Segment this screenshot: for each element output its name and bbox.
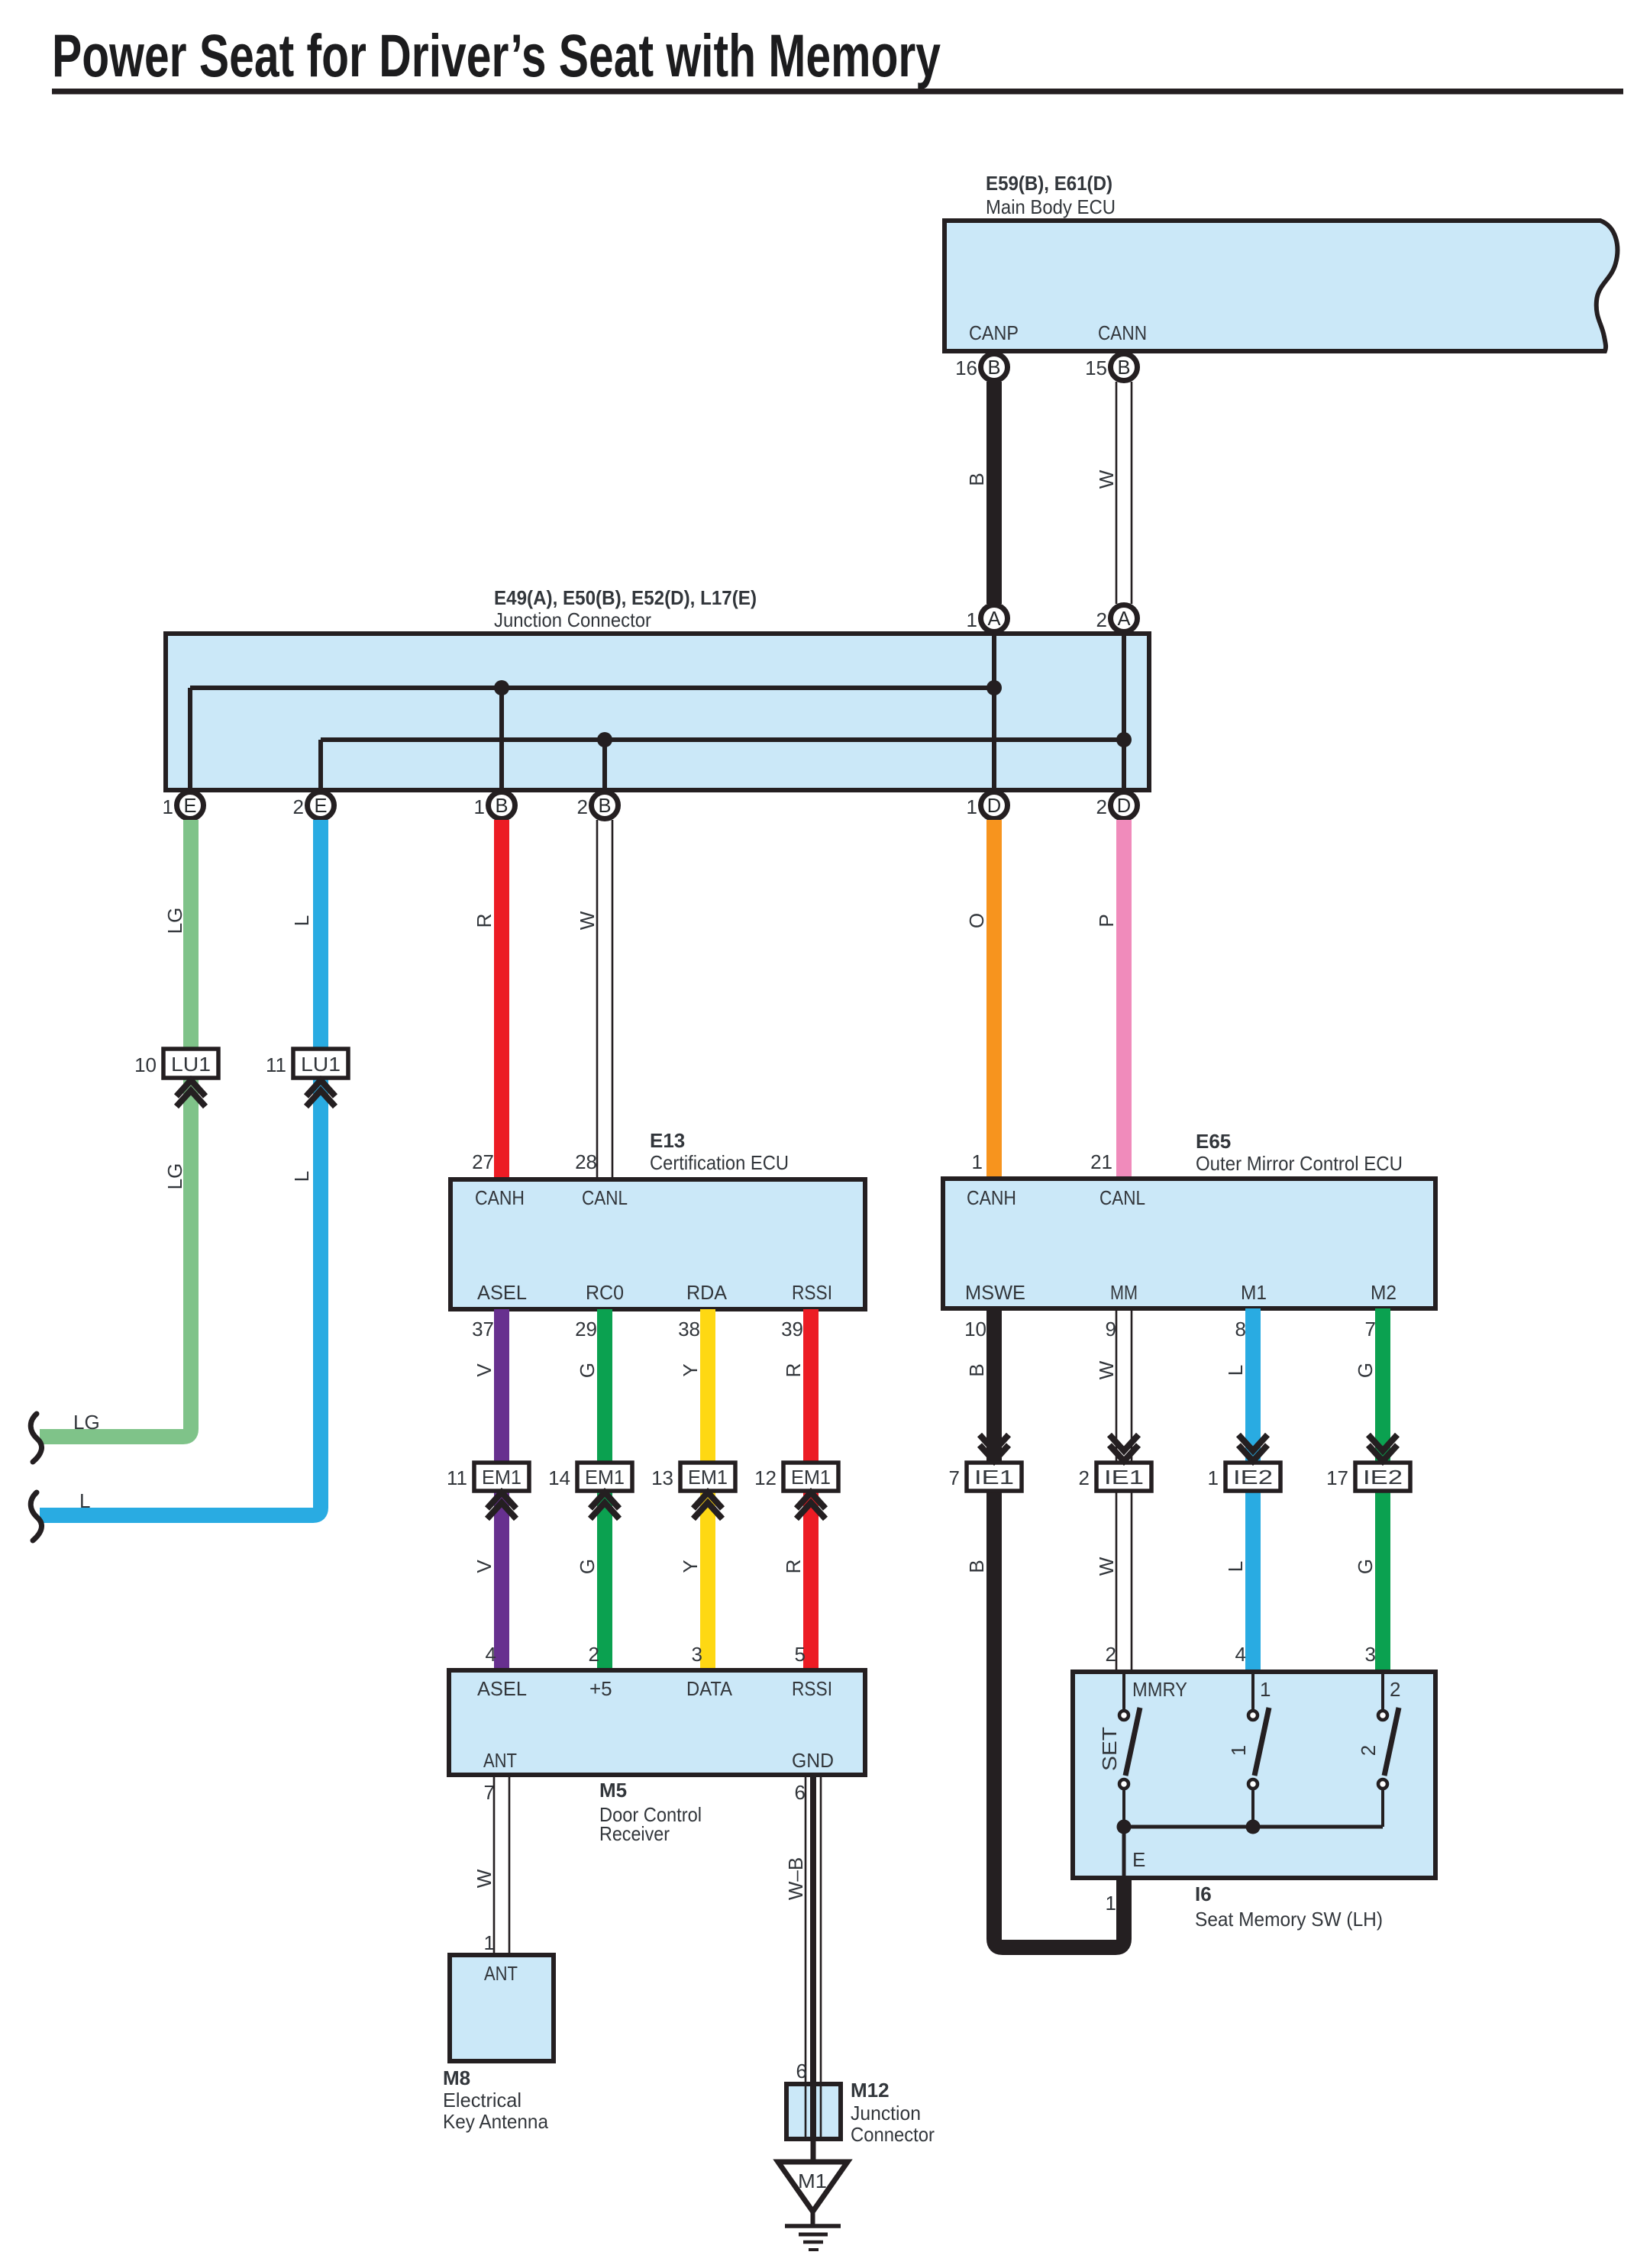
- pin 1 B of junction connector: [474, 792, 515, 819]
- svg-text:21: 21: [1090, 1150, 1112, 1173]
- svg-text:G: G: [1354, 1363, 1377, 1378]
- pin label M1 e65: [1241, 1281, 1267, 1304]
- svg-text:9: 9: [1106, 1318, 1116, 1340]
- switch 2 label: [1357, 1745, 1380, 1756]
- wire label Y lower: [679, 1560, 702, 1573]
- pin number 3 i6: [1365, 1643, 1376, 1666]
- junction internal node B2-lower: [597, 732, 612, 747]
- wire label Y upper: [679, 1363, 702, 1376]
- wire label L m1 lower: [1224, 1561, 1247, 1572]
- wire label B mswe lower: [965, 1560, 988, 1573]
- svg-text:E49(A), E50(B), E52(D), L17(E): E49(A), E50(B), E52(D), L17(E): [494, 586, 757, 609]
- svg-text:Key Antenna: Key Antenna: [443, 2110, 548, 2133]
- ground M1 triangle: [778, 2162, 848, 2212]
- wire label G lower: [576, 1559, 599, 1574]
- svg-text:2: 2: [1106, 1643, 1116, 1666]
- svg-text:LU1: LU1: [171, 1053, 211, 1076]
- switch SET contact top: [1119, 1674, 1129, 1720]
- ECU M5 Door Control Receiver box: [449, 1670, 865, 1775]
- switch I6 Seat Memory SW box: [1073, 1672, 1435, 1878]
- ECU E13 Certification ECU box: [450, 1179, 865, 1309]
- wire label R rssi lower: [782, 1560, 805, 1574]
- svg-text:I6: I6: [1195, 1882, 1212, 1905]
- wire R junction B1 to E13 CANH: [494, 820, 509, 1179]
- svg-text:17: 17: [1326, 1466, 1348, 1489]
- wire L junction E2 down and left to page edge: [40, 820, 321, 1515]
- wire O junction D1 to E65 CANH: [986, 820, 1002, 1179]
- wire B CANP to junction A1: [986, 382, 1002, 604]
- junction internal node A1-upper: [986, 680, 1002, 695]
- pin number 1 i6 E: [1106, 1892, 1116, 1915]
- svg-text:7: 7: [1365, 1318, 1376, 1340]
- wire label L lower: [290, 1171, 313, 1182]
- pin label ASEL m5: [477, 1677, 527, 1700]
- connector 1 IE2: [1208, 1463, 1280, 1491]
- label Main Body ECU: [986, 195, 1116, 218]
- svg-text:RSSI: RSSI: [792, 1677, 832, 1700]
- wire label LG lower: [163, 1163, 186, 1190]
- svg-text:1: 1: [1260, 1678, 1271, 1701]
- junction connector M12 box: [786, 2084, 841, 2139]
- svg-text:IE1: IE1: [1104, 1466, 1144, 1489]
- connector 17 IE2: [1326, 1463, 1410, 1491]
- svg-text:IE1: IE1: [974, 1466, 1014, 1489]
- pin label E i6: [1132, 1848, 1145, 1871]
- svg-text:IE2: IE2: [1363, 1466, 1403, 1489]
- ECU E59/E61 Main Body ECU box: [944, 221, 1617, 351]
- svg-text:B: B: [965, 1560, 988, 1573]
- wire G E65 M2 to I6: [1375, 1308, 1390, 1672]
- svg-text:W: W: [473, 1869, 496, 1888]
- svg-text:GND: GND: [792, 1749, 834, 1772]
- svg-text:D: D: [1117, 795, 1131, 817]
- pin number 38: [678, 1318, 700, 1340]
- svg-text:11: 11: [447, 1466, 467, 1489]
- svg-text:EM1: EM1: [585, 1466, 625, 1489]
- svg-text:E: E: [314, 795, 327, 817]
- pin 1 E of junction connector: [163, 792, 204, 819]
- connector EM1-12 chevron: [796, 1492, 825, 1519]
- pin number 2 i6: [1106, 1643, 1116, 1666]
- pin label RSSI e13: [792, 1281, 832, 1304]
- switch 2 contact top: [1378, 1674, 1387, 1720]
- svg-text:L: L: [79, 1489, 90, 1512]
- ground bar 4: [809, 2248, 819, 2251]
- svg-text:B: B: [965, 473, 988, 486]
- wire label LG horizontal: [73, 1411, 100, 1434]
- svg-text:3: 3: [692, 1643, 702, 1666]
- svg-text:ANT: ANT: [483, 1749, 517, 1772]
- svg-text:R: R: [782, 1363, 805, 1378]
- connector IE1-7 chevron: [980, 1435, 1009, 1462]
- svg-text:6: 6: [796, 2060, 807, 2082]
- svg-text:ANT: ANT: [484, 1962, 518, 1985]
- pin label M2 e65: [1371, 1281, 1397, 1304]
- switch 1 contact top: [1248, 1674, 1258, 1720]
- pin number 4: [486, 1643, 496, 1666]
- pin number 6 m5: [795, 1781, 806, 1804]
- wire label W: [1095, 469, 1118, 489]
- label Key Antenna: [443, 2110, 548, 2133]
- label Door Control: [599, 1803, 702, 1826]
- switch 2 blade: [1384, 1708, 1399, 1776]
- svg-text:12: 12: [754, 1466, 777, 1489]
- junction internal node A2-lower: [1116, 732, 1132, 747]
- pin label DATA: [686, 1677, 733, 1700]
- wire label B: [965, 473, 988, 486]
- label E13: [650, 1129, 685, 1152]
- pin number 9: [1106, 1318, 1116, 1340]
- pin label MSWE: [965, 1281, 1025, 1304]
- connector 10 LU1: [134, 1049, 218, 1078]
- wire label W canl: [576, 911, 599, 930]
- svg-text:Seat Memory SW (LH): Seat Memory SW (LH): [1195, 1908, 1383, 1931]
- svg-text:28: 28: [575, 1150, 597, 1173]
- svg-text:2: 2: [589, 1643, 599, 1666]
- svg-text:P: P: [1095, 914, 1118, 927]
- pin number 1 e65: [972, 1150, 983, 1173]
- svg-text:2: 2: [1096, 795, 1107, 818]
- svg-text:CANN: CANN: [1098, 321, 1147, 344]
- svg-text:16: 16: [955, 356, 977, 379]
- svg-text:SET: SET: [1098, 1727, 1121, 1771]
- connector 7 IE1: [949, 1463, 1022, 1491]
- wire P junction D2 to E65 CANL: [1116, 820, 1132, 1179]
- svg-text:M8: M8: [443, 2066, 470, 2089]
- svg-text:DATA: DATA: [686, 1677, 733, 1700]
- wire W CANN to junction A2: [1116, 382, 1132, 604]
- svg-text:M1: M1: [1241, 1281, 1267, 1304]
- svg-text:G: G: [576, 1363, 599, 1378]
- svg-text:13: 13: [651, 1466, 673, 1489]
- svg-text:ASEL: ASEL: [477, 1281, 527, 1304]
- svg-text:RSSI: RSSI: [792, 1281, 832, 1304]
- ground stem: [811, 2212, 815, 2226]
- svg-text:1: 1: [967, 608, 977, 631]
- wire label LG upper: [163, 908, 186, 934]
- connector LU1-11 chevron: [306, 1080, 335, 1107]
- svg-text:Junction: Junction: [851, 2102, 921, 2124]
- pin 2 A of junction connector: [1096, 605, 1138, 632]
- svg-text:Certification ECU: Certification ECU: [650, 1151, 789, 1174]
- svg-text:5: 5: [795, 1643, 806, 1666]
- I6 internal node SET-E: [1117, 1820, 1132, 1834]
- pin 2 E of junction connector: [293, 792, 334, 819]
- svg-text:10: 10: [134, 1053, 157, 1076]
- pin number 10: [964, 1318, 986, 1340]
- svg-text:2: 2: [1096, 608, 1107, 631]
- switch SET blade: [1125, 1708, 1140, 1776]
- pin label CANH e13: [475, 1186, 525, 1209]
- svg-text:6: 6: [795, 1781, 806, 1804]
- svg-text:W: W: [576, 911, 599, 930]
- svg-text:L: L: [290, 1171, 313, 1182]
- pin label CANN: [1098, 321, 1147, 344]
- connector LU1 chevron: [176, 1080, 205, 1107]
- label E49(A), E50(B), E52(D), L17(E): [494, 586, 757, 609]
- connector EM1-13 chevron: [693, 1492, 722, 1519]
- pin label ASEL e13: [477, 1281, 527, 1304]
- svg-text:+5: +5: [589, 1677, 612, 1700]
- wire label G m2 lower: [1354, 1559, 1377, 1574]
- svg-text:Electrical: Electrical: [443, 2089, 521, 2112]
- svg-text:29: 29: [575, 1318, 597, 1340]
- svg-text:V: V: [473, 1363, 496, 1377]
- svg-text:G: G: [576, 1559, 599, 1574]
- svg-text:Receiver: Receiver: [599, 1822, 670, 1845]
- svg-text:27: 27: [472, 1150, 494, 1173]
- svg-text:O: O: [965, 913, 988, 928]
- svg-text:Junction Connector: Junction Connector: [494, 608, 651, 631]
- pin label RSSI m5: [792, 1677, 832, 1700]
- svg-text:E: E: [1132, 1848, 1145, 1871]
- svg-text:E13: E13: [650, 1129, 685, 1152]
- svg-text:MM: MM: [1110, 1281, 1138, 1304]
- pin number 5 m5: [795, 1643, 806, 1666]
- junction internal node B1-upper: [494, 680, 509, 695]
- wire W E65 MM to I6: [1116, 1308, 1132, 1672]
- svg-text:8: 8: [1235, 1318, 1246, 1340]
- svg-text:W: W: [1095, 1360, 1118, 1379]
- wire label L m1 upper: [1224, 1365, 1247, 1376]
- title: [52, 21, 941, 89]
- svg-text:R: R: [782, 1560, 805, 1574]
- svg-text:W: W: [1095, 1557, 1118, 1576]
- switch 1 contact bottom: [1248, 1779, 1258, 1827]
- svg-text:B: B: [987, 357, 1000, 379]
- svg-text:1: 1: [474, 795, 485, 818]
- pin label MMRY: [1132, 1678, 1187, 1701]
- svg-text:L: L: [1224, 1561, 1247, 1572]
- switch SET contact bottom: [1119, 1779, 1129, 1827]
- wire label L upper: [290, 915, 313, 926]
- label M5: [599, 1779, 627, 1802]
- svg-text:15: 15: [1085, 356, 1107, 379]
- wire L E65 M1 to I6: [1245, 1308, 1261, 1672]
- svg-text:39: 39: [781, 1318, 803, 1340]
- switch 1 blade: [1254, 1708, 1269, 1776]
- svg-text:Outer Mirror Control ECU: Outer Mirror Control ECU: [1196, 1152, 1403, 1175]
- I6 internal node 1-E: [1246, 1820, 1261, 1834]
- svg-text:MSWE: MSWE: [965, 1281, 1025, 1304]
- pin number 28: [575, 1150, 597, 1173]
- svg-text:R: R: [473, 914, 496, 928]
- ground bar 3: [803, 2241, 823, 2244]
- svg-text:B: B: [965, 1363, 988, 1376]
- connector 13 EM1: [651, 1463, 735, 1491]
- svg-text:1: 1: [972, 1150, 983, 1173]
- pin label 1 i6: [1260, 1678, 1271, 1701]
- pin number 2 m5: [589, 1643, 599, 1666]
- pin label RC0: [586, 1281, 624, 1304]
- I6 internal E bus: [1124, 1827, 1383, 1876]
- svg-text:MMRY: MMRY: [1132, 1678, 1187, 1701]
- label M8: [443, 2066, 470, 2089]
- svg-text:38: 38: [678, 1318, 700, 1340]
- svg-text:E59(B), E61(D): E59(B), E61(D): [986, 172, 1112, 195]
- wire M12 to ground: [811, 2139, 816, 2164]
- pin label MM: [1110, 1281, 1138, 1304]
- pin 1 D of junction connector: [967, 792, 1008, 819]
- svg-text:CANH: CANH: [967, 1186, 1016, 1209]
- svg-text:L: L: [1224, 1365, 1247, 1376]
- svg-text:E65: E65: [1196, 1130, 1231, 1153]
- wire W-B through M12: [806, 2086, 821, 2137]
- wire W-B M5 GND to M12: [806, 1775, 821, 2084]
- label Certification ECU: [650, 1151, 789, 1174]
- connector 11 EM1: [447, 1463, 529, 1491]
- pin 2 B of junction connector: [577, 792, 618, 819]
- label Receiver: [599, 1822, 670, 1845]
- wire label L horizontal: [79, 1489, 90, 1512]
- wire label W ant: [473, 1869, 496, 1888]
- svg-text:2: 2: [293, 795, 304, 818]
- wire label V lower: [473, 1560, 496, 1573]
- pin number 1 m8: [484, 1931, 495, 1954]
- label M12: [851, 2079, 890, 2102]
- connector 12 EM1: [754, 1463, 838, 1491]
- label Seat Memory SW (LH): [1195, 1908, 1383, 1931]
- wire W M5 ANT to M8: [494, 1775, 509, 1955]
- svg-text:1: 1: [484, 1931, 495, 1954]
- svg-text:Connector: Connector: [851, 2123, 935, 2146]
- junction internal bus wire lower: [321, 740, 1124, 788]
- switch SET label: [1098, 1727, 1121, 1771]
- pin number 7 m5: [484, 1781, 495, 1804]
- pin 2 D of junction connector: [1096, 792, 1138, 819]
- wire G E13 RC0 to M5: [597, 1309, 612, 1670]
- wire label W mm upper: [1095, 1360, 1118, 1379]
- label Junction m12: [851, 2102, 921, 2124]
- svg-text:Y: Y: [679, 1363, 702, 1376]
- pin number 8: [1235, 1318, 1246, 1340]
- pin number 4 i6: [1235, 1643, 1246, 1666]
- pin number 37: [472, 1318, 494, 1340]
- pin label +5: [589, 1677, 612, 1700]
- pin label 2 i6: [1390, 1678, 1400, 1701]
- svg-text:IE2: IE2: [1233, 1466, 1273, 1489]
- pin label ANT m8: [484, 1962, 518, 1985]
- pin 16 B of Main Body ECU: [955, 354, 1007, 381]
- svg-text:E: E: [183, 795, 196, 817]
- svg-text:CANL: CANL: [1099, 1186, 1145, 1209]
- wire R E13 RSSI to M5: [803, 1309, 819, 1670]
- label Connector m12: [851, 2123, 935, 2146]
- pin number 7 e65: [1365, 1318, 1376, 1340]
- svg-text:11: 11: [266, 1053, 286, 1076]
- svg-text:Power Seat for Driver’s Seat w: Power Seat for Driver’s Seat with Memory: [52, 21, 941, 89]
- svg-text:EM1: EM1: [482, 1466, 521, 1489]
- off-page squiggle L: [31, 1492, 41, 1540]
- svg-text:CANL: CANL: [582, 1186, 628, 1209]
- svg-text:CANH: CANH: [475, 1186, 525, 1209]
- svg-text:1: 1: [967, 795, 977, 818]
- svg-text:CANP: CANP: [969, 321, 1019, 344]
- wire label W mm lower: [1095, 1557, 1118, 1576]
- wire label P: [1095, 914, 1118, 927]
- svg-text:EM1: EM1: [688, 1466, 728, 1489]
- svg-text:LG: LG: [73, 1411, 100, 1434]
- label Junction Connector: [494, 608, 651, 631]
- label Outer Mirror Control ECU: [1196, 1152, 1403, 1175]
- antenna M8 Electrical Key Antenna box: [450, 1955, 554, 2061]
- pin 1 A of junction connector: [967, 605, 1008, 632]
- svg-text:EM1: EM1: [791, 1466, 831, 1489]
- svg-text:2: 2: [577, 795, 588, 818]
- svg-text:M2: M2: [1371, 1281, 1397, 1304]
- wire label R: [473, 914, 496, 928]
- svg-text:D: D: [987, 795, 1001, 817]
- pin label CANL e65: [1099, 1186, 1145, 1209]
- svg-text:1: 1: [1208, 1466, 1219, 1489]
- svg-text:M12: M12: [851, 2079, 890, 2102]
- wire label G upper: [576, 1363, 599, 1378]
- svg-text:1: 1: [1106, 1892, 1116, 1915]
- svg-text:Main Body ECU: Main Body ECU: [986, 195, 1116, 218]
- pin number 21: [1090, 1150, 1112, 1173]
- svg-text:LG: LG: [163, 1163, 186, 1190]
- junction internal bus wire upper: [190, 688, 994, 788]
- svg-text:A: A: [1117, 608, 1130, 630]
- connector IE2-17 chevron: [1368, 1435, 1397, 1462]
- wire label V upper: [473, 1363, 496, 1377]
- pin label CANL e13: [582, 1186, 628, 1209]
- svg-text:W–B: W–B: [784, 1857, 807, 1900]
- svg-text:ASEL: ASEL: [477, 1677, 527, 1700]
- svg-text:3: 3: [1365, 1643, 1376, 1666]
- pin label CANH e65: [967, 1186, 1016, 1209]
- wire B E65 MSWE to I6 E pin: [994, 1308, 1124, 1947]
- svg-text:7: 7: [949, 1466, 960, 1489]
- connector EM1-14 chevron: [590, 1492, 619, 1519]
- wire label R rssi upper: [782, 1363, 805, 1378]
- svg-text:B: B: [495, 795, 508, 817]
- title rule: [52, 89, 1623, 95]
- svg-text:W: W: [1095, 469, 1118, 489]
- label E65: [1196, 1130, 1231, 1153]
- svg-text:Y: Y: [679, 1560, 702, 1573]
- svg-text:A: A: [987, 608, 1000, 630]
- wire label G m2 upper: [1354, 1363, 1377, 1378]
- junction connector E49/E50/E52/L17 box: [166, 634, 1149, 790]
- pin number 29: [575, 1318, 597, 1340]
- wire V E13 ASEL to M5: [494, 1309, 509, 1670]
- wire label O: [965, 913, 988, 928]
- switch 1 label: [1227, 1745, 1250, 1756]
- svg-text:M1: M1: [798, 2170, 827, 2192]
- svg-text:2: 2: [1390, 1678, 1400, 1701]
- svg-text:B: B: [1117, 357, 1130, 379]
- connector 11 LU1: [266, 1049, 348, 1078]
- svg-text:V: V: [473, 1560, 496, 1573]
- label I6: [1195, 1882, 1212, 1905]
- pin label ANT m5: [483, 1749, 517, 1772]
- junction internal wire A1-D1: [992, 636, 996, 788]
- pin label GND: [792, 1749, 834, 1772]
- svg-text:37: 37: [472, 1318, 494, 1340]
- junction internal wire A2-D2: [1122, 636, 1126, 788]
- svg-text:LG: LG: [163, 908, 186, 934]
- pin number 27: [472, 1150, 494, 1173]
- switch 2 contact bottom: [1378, 1779, 1387, 1827]
- off-page squiggle LG: [31, 1414, 41, 1462]
- connector 2 IE1: [1079, 1463, 1151, 1491]
- connector EM1-11 chevron: [487, 1492, 516, 1519]
- wire LG junction E1 down and left to page edge: [40, 820, 191, 1437]
- connector 14 EM1: [548, 1463, 632, 1491]
- label E59(B), E61(D): [986, 172, 1112, 195]
- svg-text:B: B: [598, 795, 611, 817]
